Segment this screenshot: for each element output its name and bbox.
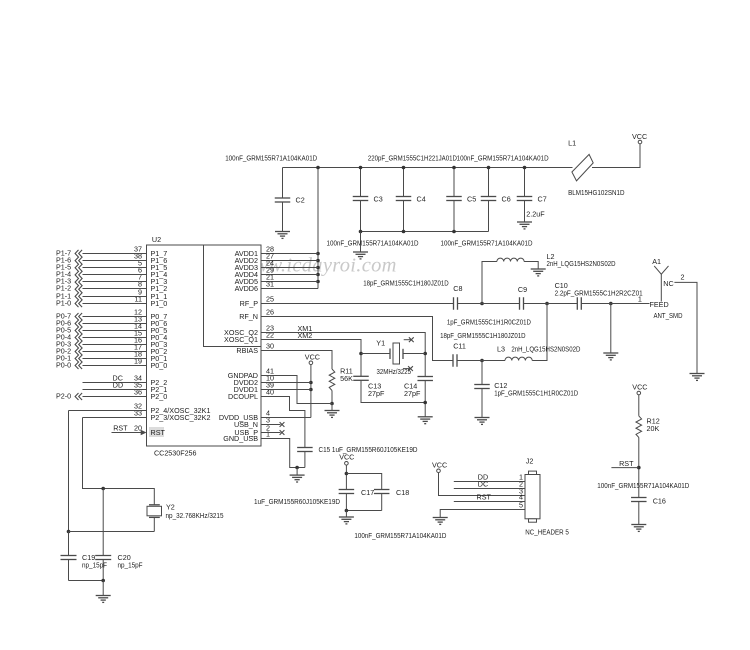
- wire RBIAS (pin 30): [261, 351, 332, 370]
- svg-text:26: 26: [266, 308, 274, 317]
- ground (GND_USB/C15): [290, 468, 305, 483]
- ground (L2): [531, 269, 546, 276]
- svg-text:L3: L3: [497, 345, 505, 354]
- ground (C7): [517, 222, 532, 229]
- svg-text:25: 25: [266, 295, 274, 304]
- svg-text:1pF_GRM1555C1H1R0CZ01D: 1pF_GRM1555C1H1R0CZ01D: [447, 318, 531, 327]
- svg-text:100nF_GRM155R71A104KA01D: 100nF_GRM155R71A104KA01D: [441, 239, 533, 248]
- capacitor C9: [518, 285, 577, 310]
- svg-text:VCC: VCC: [432, 461, 447, 470]
- ground (antenna NC): [690, 374, 705, 381]
- svg-text:XOSC_Q1: XOSC_Q1: [224, 335, 258, 344]
- svg-text:1: 1: [266, 430, 270, 439]
- wire DVDD_USB (pin 4): [261, 417, 311, 419]
- port labels P1-7..P1-0: [56, 249, 71, 308]
- wire J2 pin 1 (DD): [454, 473, 525, 482]
- ferrite bead L1: [568, 139, 625, 198]
- svg-text:GND_USB: GND_USB: [223, 434, 258, 443]
- capacitor C15: [297, 445, 417, 468]
- ground (FEED): [603, 353, 618, 360]
- wire antenna NC (pin 2): [674, 282, 697, 373]
- wire FEED to ground: [610, 304, 612, 354]
- ground (C17): [339, 511, 354, 524]
- svg-text:C11: C11: [453, 342, 466, 351]
- port label P2-0: [56, 392, 71, 401]
- capacitor C17: [339, 488, 375, 511]
- svg-text:C18: C18: [396, 488, 409, 497]
- svg-text:5: 5: [519, 501, 523, 510]
- J2 pin numbers: [519, 473, 523, 510]
- wire AVDD feed vertical: [316, 166, 320, 289]
- capacitor C19: [61, 532, 108, 581]
- label 100nF_GRM155R71A104KA01D (top right): [457, 154, 549, 163]
- svg-text:18pF_GRM1555C1H180JZ01D: 18pF_GRM1555C1H180JZ01D: [363, 279, 449, 288]
- svg-text:XM2: XM2: [298, 331, 313, 340]
- U2 right pin names: [219, 249, 258, 443]
- capacitor C4: [396, 166, 426, 232]
- svg-text:J2: J2: [526, 457, 534, 466]
- capacitor C14: [404, 377, 433, 417]
- ground (J2): [433, 518, 448, 525]
- ground (C2): [275, 232, 290, 239]
- capacitor C11: [453, 342, 482, 367]
- svg-text:2.2uF: 2.2uF: [526, 210, 545, 219]
- wire RF_N (pin 26): [261, 317, 484, 363]
- svg-text:NC: NC: [663, 279, 673, 288]
- crystal Y1 NC stub (top): [404, 337, 414, 342]
- U2 left pin names: [151, 249, 211, 422]
- label 100nF_GRM155R71A104KA01D (mid left): [327, 239, 419, 248]
- svg-text:C3: C3: [374, 195, 383, 204]
- wire RF_P (pin 25): [261, 302, 613, 306]
- svg-text:C5: C5: [467, 195, 476, 204]
- svg-text:L1: L1: [568, 139, 576, 148]
- svg-text:100nF_GRM155R71A104KA01D: 100nF_GRM155R71A104KA01D: [457, 154, 549, 163]
- capacitor C5: [446, 166, 476, 232]
- svg-text:NC_HEADER 5: NC_HEADER 5: [525, 528, 569, 537]
- svg-text:C17: C17: [361, 488, 374, 497]
- svg-text:DD: DD: [113, 381, 123, 390]
- capacitor C8: [447, 284, 531, 327]
- capacitor C20: [95, 489, 143, 581]
- label 100nF_GRM155R71A104KA01D (mid right): [441, 239, 533, 248]
- capacitor C10: [555, 281, 650, 310]
- power VCC (DVDD): [305, 353, 320, 365]
- svg-text:36: 36: [134, 388, 142, 397]
- power VCC (J2): [432, 461, 447, 473]
- svg-text:RST: RST: [477, 493, 492, 502]
- wire VCC to DVDD1/DVDD2/DVDD_USB: [309, 365, 313, 418]
- wire bottom rail of C3-C6: [359, 230, 489, 234]
- svg-text:19: 19: [134, 357, 142, 366]
- power VCC (R12): [632, 383, 647, 395]
- svg-text:RF_N: RF_N: [239, 312, 258, 321]
- svg-text:33: 33: [134, 409, 142, 418]
- wire J2 pin 5 to ground: [440, 510, 525, 518]
- label 220pF_GRM1555C1H221JA01D: [368, 154, 457, 163]
- svg-text:RST: RST: [151, 428, 166, 437]
- svg-text:22: 22: [266, 331, 274, 340]
- ground (C12): [475, 418, 490, 425]
- wire DCOUPL (pin 40) to C15: [261, 397, 305, 448]
- svg-text:100nF_GRM155R71A104KA01D: 100nF_GRM155R71A104KA01D: [327, 239, 419, 248]
- svg-text:40: 40: [266, 388, 274, 397]
- resistor R11: [329, 367, 353, 406]
- svg-text:DC: DC: [478, 480, 488, 489]
- svg-text:1uF_GRM155R60J105KE19D: 1uF_GRM155R60J105KE19D: [254, 497, 340, 506]
- svg-text:np_15pF: np_15pF: [118, 561, 144, 570]
- wire GND_USB (pin 1): [261, 439, 305, 470]
- wire DVDD1 (pin 39): [261, 389, 311, 391]
- U2 right pin numbers: [266, 245, 274, 439]
- power VCC (C17/C18): [339, 453, 354, 466]
- inductor L3: [482, 304, 580, 361]
- svg-text:RST: RST: [113, 424, 128, 433]
- wire J2 pin 4 (RST): [454, 493, 525, 502]
- svg-text:U2: U2: [152, 235, 161, 244]
- svg-text:2nH_LQG15HS2N0S02D: 2nH_LQG15HS2N0S02D: [547, 259, 616, 268]
- ground (C13/C14): [418, 417, 433, 424]
- port labels P0-7..P0-0: [56, 312, 71, 370]
- svg-text:P1_0: P1_0: [151, 299, 168, 308]
- bus entry zigzag P0: [75, 313, 82, 369]
- svg-text:11: 11: [135, 295, 142, 304]
- wire net RST (pin 20): [112, 424, 147, 436]
- capacitor C3: [353, 166, 383, 232]
- capacitor C12: [474, 361, 578, 418]
- wire R12 to RST node: [637, 437, 641, 497]
- crystal Y1 NC stub (bottom): [403, 366, 413, 371]
- svg-text:C8: C8: [453, 284, 462, 293]
- svg-text:C7: C7: [538, 195, 547, 204]
- svg-text:RST: RST: [619, 459, 634, 468]
- ground (C3 rail): [353, 232, 368, 259]
- capacitor C18: [374, 488, 409, 511]
- svg-text:31: 31: [266, 280, 274, 289]
- capacitor C7: [517, 166, 547, 222]
- svg-text:P1-0: P1-0: [56, 299, 71, 308]
- crystal Y2: [147, 503, 224, 532]
- label 100nF_GRM155R71A104KA01D (C2): [225, 154, 317, 163]
- svg-text:VCC: VCC: [632, 383, 647, 392]
- USB_P no-connect (pin 2): [261, 430, 284, 435]
- wire C17/C18 bottom: [345, 509, 382, 513]
- wire J2 pin 2 (DC): [454, 480, 525, 489]
- svg-text:VCC: VCC: [339, 453, 354, 462]
- svg-text:DCOUPL: DCOUPL: [228, 392, 258, 401]
- svg-text:100nF_GRM155R71A104KA01D: 100nF_GRM155R71A104KA01D: [225, 154, 317, 163]
- power VCC (top right): [632, 132, 647, 144]
- IC U2 CC2530F256 body: [147, 235, 262, 458]
- svg-text:1: 1: [638, 295, 642, 304]
- svg-text:np_15pF: np_15pF: [82, 561, 108, 570]
- svg-text:A1: A1: [652, 257, 661, 266]
- wire GNDPAD (pin 41): [261, 376, 332, 404]
- svg-text:VCC: VCC: [632, 132, 647, 141]
- U2 pin name RST (highlighted): [149, 427, 165, 437]
- svg-text:18pF_GRM1555C1H180JZ01D: 18pF_GRM1555C1H180JZ01D: [440, 331, 525, 340]
- wire VCC to J2 pin 3: [439, 473, 526, 496]
- svg-text:C6: C6: [502, 195, 511, 204]
- svg-text:RBIAS: RBIAS: [236, 346, 258, 355]
- svg-text:C15 1uF_GRM155R60J105KE19D: C15 1uF_GRM155R60J105KE19D: [319, 445, 418, 454]
- antenna A1: [638, 257, 685, 320]
- svg-text:BLM15HG102SN1D: BLM15HG102SN1D: [568, 188, 625, 197]
- svg-text:100nF_GRM155R71A104KA01D: 100nF_GRM155R71A104KA01D: [597, 481, 689, 490]
- svg-text:27pF: 27pF: [404, 389, 421, 398]
- svg-text:C16: C16: [653, 497, 666, 506]
- svg-text:C4: C4: [417, 195, 426, 204]
- crystal Y1: [361, 339, 425, 377]
- svg-text:2nH_LQG15HS2N0S02D: 2nH_LQG15HS2N0S02D: [511, 345, 580, 354]
- svg-text:P2_0: P2_0: [151, 392, 168, 401]
- inductor L2: [482, 252, 616, 304]
- label 18pF_GRM1555C1H180JZ01D (C11): [440, 331, 525, 340]
- USB_N no-connect (pin 3): [261, 422, 284, 427]
- capacitor C6: [481, 166, 511, 232]
- svg-text:RF_P: RF_P: [240, 299, 259, 308]
- capacitor C2: [275, 168, 305, 232]
- capacitor C16: [631, 497, 666, 525]
- wire XM1 (pin 23): [261, 324, 427, 377]
- bus entry zigzag P1: [75, 250, 82, 307]
- watermark: [241, 255, 397, 277]
- ground (C16): [631, 525, 646, 532]
- bus entry zigzag P2-0: [75, 393, 82, 400]
- svg-text:np_32.768KHz/3215: np_32.768KHz/3215: [166, 511, 224, 520]
- U2 left pin numbers: [134, 245, 142, 433]
- wire C19-C20 bottom: [69, 579, 105, 583]
- wire net DC (pin 34): [83, 374, 147, 383]
- wires P1 stubs: [83, 254, 147, 304]
- svg-text:AVDD6: AVDD6: [235, 284, 258, 293]
- wires P0 stubs: [83, 317, 147, 366]
- svg-text:P2_3/XOSC_32K2: P2_3/XOSC_32K2: [151, 413, 211, 422]
- svg-text:56K: 56K: [340, 374, 353, 383]
- svg-text:2: 2: [681, 273, 685, 282]
- svg-text:20K: 20K: [647, 424, 660, 433]
- svg-text:220pF_GRM1555C1H221JA01D: 220pF_GRM1555C1H221JA01D: [368, 154, 457, 163]
- svg-text:27pF: 27pF: [368, 389, 385, 398]
- resistor R12: [636, 416, 660, 438]
- wire XM2 (pin 22): [261, 331, 363, 376]
- label 1uF_GRM155R60J105KE19D: [254, 497, 340, 506]
- wire XOSC_32K2 (pin 33) to Y2 top: [83, 418, 155, 505]
- svg-text:P0-0: P0-0: [56, 361, 71, 370]
- svg-text:P2-0: P2-0: [56, 392, 71, 401]
- connector J2 NC_HEADER 5: [525, 457, 569, 537]
- svg-text:P0_0: P0_0: [151, 361, 168, 370]
- capacitor C13: [353, 376, 425, 402]
- label 100nF_GRM155R71A104KA01D (C17/C18): [354, 531, 446, 540]
- wire net RST (right): [611, 459, 638, 468]
- wire DVDD2 (pin 10): [261, 382, 311, 384]
- wire VCC rail C17/C18: [345, 465, 382, 489]
- svg-text:1pF_GRM1555C1H1R0CZ01D: 1pF_GRM1555C1H1R0CZ01D: [494, 389, 578, 398]
- svg-text:C2: C2: [296, 196, 305, 205]
- wire VCC to R12: [638, 395, 640, 416]
- svg-text:30: 30: [266, 342, 274, 351]
- wire P2-0 stub: [83, 396, 147, 398]
- label 100nF_GRM155R71A104KA01D (C16): [597, 481, 689, 490]
- wire VCC rail (top): [283, 144, 641, 168]
- wire XOSC_32K1 (pin 32) to Y2 bottom: [67, 411, 155, 534]
- svg-text:2.2pF_GRM1555C1H2R2CZ01: 2.2pF_GRM1555C1H2R2CZ01: [555, 289, 643, 298]
- ground (R11/GNDPAD): [325, 404, 340, 418]
- svg-text:VCC: VCC: [305, 353, 320, 362]
- svg-text:100nF_GRM155R71A104KA01D: 100nF_GRM155R71A104KA01D: [354, 531, 446, 540]
- wire net DD (pin 35): [83, 381, 147, 390]
- svg-text:C9: C9: [518, 285, 527, 294]
- svg-text:Y1: Y1: [376, 339, 385, 348]
- wire AVDD pins to feed: [261, 254, 318, 289]
- svg-text:CC2530F256: CC2530F256: [154, 449, 197, 458]
- ground (Y2 block): [96, 581, 111, 603]
- svg-text:ANT_SMD: ANT_SMD: [654, 311, 683, 320]
- label 18pF_GRM1555C1H180JZ01D (upper): [363, 279, 449, 288]
- svg-text:FEED: FEED: [650, 300, 669, 309]
